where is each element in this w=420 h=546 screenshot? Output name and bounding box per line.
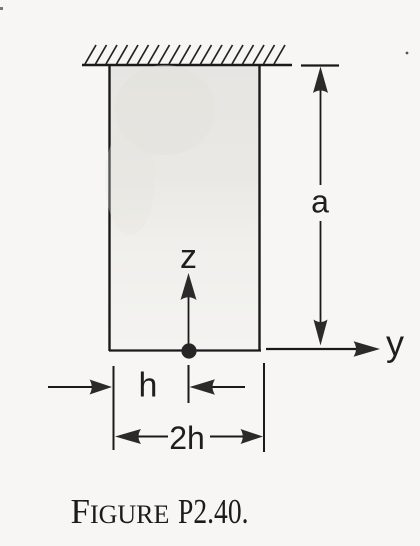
svg-text:z: z (180, 238, 197, 276)
svg-text:y: y (386, 323, 404, 364)
svg-text:2h: 2h (169, 420, 205, 456)
svg-text:a: a (311, 184, 329, 220)
svg-text:h: h (139, 367, 158, 405)
svg-text:P2.40.: P2.40. (178, 492, 249, 531)
